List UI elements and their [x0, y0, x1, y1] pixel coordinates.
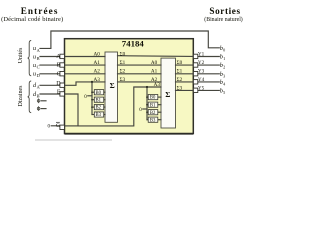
- svg-text:C: C: [57, 71, 61, 77]
- junction dot block2 tie on A3 wire: [146, 86, 148, 88]
- svg-text:E: E: [57, 90, 61, 96]
- wire 0 to G-bar pin: [51, 125, 60, 127]
- brace Dizaines group: [28, 81, 32, 113]
- svg-text:B: B: [57, 63, 61, 69]
- wire uD to pin C to block1 A2: [40, 73, 105, 75]
- wire sigma3 block1 to block2 A2: [118, 81, 162, 83]
- svg-text:A0: A0: [151, 60, 158, 66]
- svg-text:D: D: [37, 73, 40, 78]
- svg-text:2: 2: [223, 65, 225, 70]
- stubs boxes to block1: [104, 91, 105, 93]
- wire Y4 to b4: [198, 81, 220, 83]
- junction dots B rows block1: [91, 91, 93, 93]
- box B1 U1: [94, 97, 103, 102]
- stub 0 label block1: [88, 95, 92, 97]
- svg-text:A0: A0: [94, 51, 101, 57]
- svg-text:Sorties: Sorties: [209, 6, 240, 16]
- wire Y2 to b2: [198, 64, 220, 66]
- wire sigma1 block1 to block2 A0: [118, 64, 162, 66]
- svg-text:A: A: [56, 54, 61, 60]
- svg-text:B0: B0: [96, 91, 102, 96]
- stub B2 block1: [92, 106, 94, 108]
- svg-text:B3: B3: [150, 118, 156, 123]
- phi symbol unused input dD: [37, 106, 40, 111]
- svg-text:A2: A2: [94, 69, 101, 75]
- wire uC to pin B to block1 A1: [40, 64, 105, 66]
- wire block2 sigma1 to pin Y3: [176, 73, 194, 75]
- stub B3 block1: [92, 114, 94, 116]
- pin A: [60, 54, 65, 58]
- svg-text:Y3: Y3: [198, 69, 205, 75]
- pin Y5: [193, 88, 197, 92]
- wire block2 sigma0 to pin Y2: [176, 64, 194, 66]
- wire Y3 to b3: [198, 73, 220, 75]
- wire Y1 to b1: [198, 56, 220, 58]
- stub 0 label block2: [143, 108, 147, 110]
- pin Y3: [193, 72, 197, 76]
- stubs boxes to block2: [158, 96, 161, 98]
- svg-text:Entrées: Entrées: [21, 6, 59, 16]
- svg-text:0: 0: [223, 47, 225, 52]
- pins left A B C D E Gbar: [60, 54, 198, 129]
- svg-text:A1: A1: [151, 69, 158, 75]
- wire 0 tie vertical block1: [91, 82, 93, 115]
- pin C: [60, 72, 65, 76]
- pin Y2: [193, 63, 197, 67]
- wire uB to pin A to block1 A0: [40, 56, 105, 58]
- phi symbol unused input dC: [37, 99, 40, 104]
- svg-text:B1: B1: [150, 103, 156, 108]
- stub B0 block1: [92, 91, 94, 93]
- stub B3 block2: [147, 119, 148, 121]
- overline of G-bar: [56, 121, 60, 123]
- svg-text:Σ0: Σ0: [177, 60, 183, 66]
- svg-text:Σ: Σ: [165, 90, 170, 99]
- svg-text:Y2: Y2: [198, 60, 205, 66]
- svg-text:B: B: [37, 56, 40, 61]
- svg-text:Σ1: Σ1: [120, 60, 126, 66]
- chip 74184 body: [65, 39, 194, 134]
- box B0 U1: [94, 90, 103, 95]
- box B2 U2: [148, 110, 158, 115]
- pin D: [60, 83, 65, 87]
- box B3 U2: [148, 117, 158, 122]
- svg-text:B2: B2: [96, 106, 102, 111]
- svg-text:74184: 74184: [122, 39, 145, 49]
- converter block U1 (left sigma block): [105, 52, 118, 122]
- svg-text:Σ3: Σ3: [120, 77, 126, 83]
- chip bottom edge reinforcement: [65, 133, 194, 135]
- svg-text:Σ3: Σ3: [177, 85, 183, 91]
- junction dots B rows block2: [146, 96, 148, 98]
- svg-text:Unités: Unités: [18, 47, 24, 63]
- stub B1 block1: [92, 99, 94, 101]
- box B1 U2: [148, 102, 158, 107]
- svg-text:B0: B0: [150, 96, 156, 101]
- wire Y5 to b5: [198, 89, 220, 91]
- stub B2 block2: [147, 111, 148, 113]
- wire 0 tie vertical block2: [146, 87, 148, 120]
- wire sigma2 block1 to block2 A1: [118, 73, 162, 75]
- wire dB to pin E bottom route to block2 A3: [40, 87, 161, 126]
- converter block U2 (right sigma block): [161, 58, 176, 128]
- wire block2 sigma2 to pin Y4: [176, 81, 194, 83]
- svg-text:Σ: Σ: [110, 81, 115, 90]
- svg-text:Σ2: Σ2: [120, 69, 126, 75]
- wire dA to pin D to block1 A3: [40, 82, 105, 85]
- svg-text:B3: B3: [96, 113, 102, 118]
- svg-text:Σ1: Σ1: [177, 69, 183, 75]
- stub B1 block2: [147, 104, 148, 106]
- box B3 U1: [94, 112, 103, 117]
- svg-text:Σ0: Σ0: [120, 51, 126, 57]
- box B0 U2: [148, 95, 158, 100]
- pin E: [60, 92, 65, 96]
- pin Y1: [193, 54, 197, 58]
- svg-text:Σ2: Σ2: [177, 77, 183, 83]
- stub B0 block2: [147, 96, 148, 98]
- svg-text:G: G: [56, 123, 60, 129]
- pin B: [60, 63, 65, 67]
- svg-text:A3: A3: [94, 77, 101, 83]
- svg-text:B: B: [37, 93, 40, 98]
- svg-text:A3: A3: [154, 82, 161, 88]
- svg-text:D: D: [56, 81, 61, 87]
- wire G-bar inside stub: [65, 125, 78, 127]
- svg-text:Y5: Y5: [198, 85, 205, 91]
- svg-text:Y4: Y4: [198, 77, 205, 83]
- svg-text:Y1: Y1: [198, 51, 205, 57]
- B input boxes block1: [94, 90, 158, 123]
- svg-text:5: 5: [223, 90, 225, 95]
- svg-text:1: 1: [223, 56, 225, 61]
- svg-text:(Binaire naturel): (Binaire naturel): [204, 16, 243, 23]
- wire block2 sigma3 to pin Y5: [176, 89, 194, 91]
- svg-text:B2: B2: [150, 111, 156, 116]
- wire uA bypass to b0: [40, 31, 219, 48]
- junction dot block1 tie: [91, 81, 93, 83]
- svg-text:B1: B1: [96, 98, 102, 103]
- svg-text:Dizaines: Dizaines: [18, 85, 24, 107]
- box B2 U1: [94, 105, 103, 110]
- svg-text:(Décimal codé binaire): (Décimal codé binaire): [1, 16, 63, 23]
- wire sigma0 block1 to pin Y1: [118, 55, 194, 58]
- wire phi dash 1: [41, 100, 46, 102]
- svg-text:3: 3: [223, 73, 225, 78]
- faint scan artifact line: [35, 139, 112, 141]
- pin G-bar: [60, 125, 65, 129]
- svg-text:A1: A1: [94, 60, 101, 66]
- pin Y4: [193, 80, 197, 84]
- svg-text:C: C: [37, 65, 40, 70]
- brace Unités group: [28, 40, 32, 75]
- wire phi dash 2: [41, 108, 46, 110]
